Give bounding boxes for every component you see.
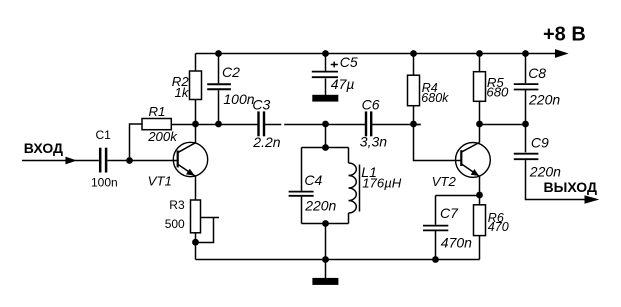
svg-text:100n: 100n	[91, 175, 118, 189]
svg-text:C4: C4	[304, 172, 322, 188]
wire: mid line right segment	[480, 124, 526, 126]
capacitor C9	[514, 154, 539, 160]
svg-text:C5: C5	[340, 54, 358, 70]
wire: R5 bottom lead	[479, 101, 481, 124]
wire: R4 bottom lead	[413, 106, 415, 124]
node: R4/base junction	[410, 121, 417, 128]
wire: emitter to C7	[436, 195, 480, 197]
capacitor C2	[207, 84, 231, 89]
svg-text:C7: C7	[440, 205, 459, 221]
wire: VT1 emitter lead	[195, 176, 197, 200]
resistor R2	[190, 71, 202, 100]
wire: tank to ground rail	[325, 224, 327, 260]
svg-text:2.2n: 2.2n	[252, 134, 280, 150]
wire: C9 bottom lead to output	[526, 160, 586, 199]
wire: C1 to VT1 base	[108, 160, 177, 162]
svg-text:C1: C1	[96, 128, 112, 142]
capacitor C4	[289, 192, 314, 196]
svg-text:680: 680	[486, 84, 509, 99]
ground bar (C5)	[312, 95, 338, 102]
svg-text:ВЫХОД: ВЫХОД	[544, 179, 597, 195]
wire: C4 bottom lead	[301, 197, 303, 224]
node: C8/C9 junction	[522, 121, 529, 128]
capacitor C7	[423, 226, 448, 231]
svg-text:R1: R1	[149, 104, 166, 119]
svg-text:470: 470	[488, 220, 509, 234]
wire: C9 top lead	[525, 124, 527, 152]
svg-text:176µH: 176µH	[362, 175, 402, 190]
inductor L1	[349, 163, 357, 213]
wire: R3 tap arm	[201, 217, 220, 219]
wire: R6 bottom lead	[479, 236, 481, 260]
wire: VT2 collector lead	[479, 124, 481, 142]
node: VT2 emitter junction	[476, 192, 483, 199]
node: mid line tank junction	[322, 121, 329, 128]
wire: C7 top lead	[435, 196, 437, 225]
svg-text:C3: C3	[252, 97, 270, 113]
wire: VT2 base drop	[414, 124, 461, 161]
resistor R5	[474, 72, 486, 102]
node: rail dot C8	[522, 50, 529, 57]
node: rail dot C2	[215, 50, 222, 57]
+8V arrowhead	[555, 49, 569, 58]
capacitor C3	[259, 111, 265, 136]
capacitor C1	[100, 148, 106, 173]
wire: L1 bottom lead	[348, 213, 350, 224]
wire: VT1 collector lead	[195, 124, 197, 143]
node: C2 bottom junction	[215, 121, 222, 128]
wire: C2 bottom lead	[218, 90, 220, 124]
svg-text:100n: 100n	[223, 91, 254, 107]
capacitor C8	[514, 84, 539, 89]
ground rail (bottom)	[196, 259, 480, 261]
svg-text:200k: 200k	[147, 129, 178, 144]
wire: C8 top lead	[525, 54, 527, 84]
svg-text:470n: 470n	[441, 234, 472, 250]
wire: R2 top lead	[195, 54, 197, 72]
wire: C7 bottom lead	[435, 231, 437, 260]
node: R3 bottom junction	[192, 239, 199, 246]
VT1 emitter diagonal	[178, 165, 195, 177]
svg-text:ВХОД: ВХОД	[24, 140, 63, 156]
node: ground rail junction	[322, 256, 329, 263]
node: rail dot C5	[322, 50, 329, 57]
node: C1/R1 junction	[126, 157, 133, 164]
svg-text:VT1: VT1	[148, 174, 172, 189]
input arrowhead	[66, 157, 77, 165]
svg-text:1k: 1k	[175, 85, 190, 100]
wire: VT2 emitter lead	[479, 176, 481, 205]
wire: R2 bottom lead	[195, 100, 197, 125]
wire: tank top lead	[325, 124, 327, 148]
resistor R4	[408, 75, 420, 106]
wire: R1 left lead	[130, 124, 143, 161]
svg-text:220n: 220n	[304, 197, 336, 213]
wire: R5 top lead	[479, 54, 481, 72]
VT2 emitter diagonal	[462, 164, 480, 176]
VT2 base bar	[460, 150, 462, 166]
wire: C2 top lead	[218, 54, 220, 84]
wire: input lead	[22, 160, 99, 162]
wire: mid line C6 to R4 stub	[372, 124, 421, 126]
svg-text:C9: C9	[531, 135, 549, 151]
ground bar (main)	[312, 278, 338, 285]
svg-text:47µ: 47µ	[331, 76, 355, 92]
transistor VT2	[456, 143, 491, 178]
resistor R1	[142, 119, 171, 130]
resistor R3	[191, 200, 201, 233]
wire: L1 top lead	[348, 148, 350, 164]
node: rail dot R5	[476, 50, 483, 57]
svg-text:C2: C2	[222, 64, 240, 80]
wire: C5 bottom lead	[325, 78, 327, 95]
svg-text:3,3n: 3,3n	[360, 133, 387, 149]
svg-text:680k: 680k	[421, 91, 449, 105]
VT1 emitter arrowhead	[186, 169, 195, 176]
wire: tank top bar	[302, 147, 349, 149]
wire: mid line R1 to C3	[171, 124, 258, 126]
L1 core line	[359, 165, 361, 212]
svg-text:220n: 220n	[529, 163, 561, 179]
node: rail dot R4	[410, 50, 417, 57]
svg-text:C6: C6	[362, 97, 380, 113]
VT2 collector diagonal	[462, 142, 480, 151]
capacitor C5	[312, 72, 338, 78]
capacitor C6	[366, 111, 371, 136]
wire: C5 top lead	[325, 54, 327, 72]
wire: R4 top lead	[413, 54, 415, 76]
transistor VT1	[173, 142, 207, 176]
svg-text:VT2: VT2	[432, 174, 457, 189]
node: VT2 collector junction	[476, 121, 483, 128]
wire: R3 tap down	[196, 218, 214, 243]
VT1 collector diagonal	[178, 143, 195, 153]
wire: mid line gap to C6	[284, 124, 365, 126]
VT2 emitter arrowhead	[471, 169, 480, 176]
wire: C8 bottom lead	[525, 90, 527, 124]
capacitor C5 plus sign	[331, 62, 338, 68]
wire: ground stub	[325, 260, 327, 279]
wire: mid line C3 to gap	[264, 124, 281, 126]
svg-text:220n: 220n	[528, 92, 560, 108]
svg-text:C8: C8	[528, 65, 546, 81]
svg-text:500: 500	[165, 217, 185, 231]
node: tank bottom junction	[322, 220, 329, 227]
VT1 base bar	[177, 151, 179, 168]
wire: tank bottom bar	[302, 223, 349, 225]
resistor R6	[474, 205, 486, 236]
svg-text:+8 В: +8 В	[543, 23, 586, 45]
wire: C4 top lead	[301, 148, 303, 191]
node: C7 ground junction	[432, 256, 439, 263]
node: tank top junction	[322, 144, 329, 151]
output arrowhead	[585, 195, 600, 204]
wire: R3 bottom lead	[195, 233, 197, 260]
svg-text:R3: R3	[169, 198, 185, 212]
wire: R4 junction right stub	[414, 124, 421, 126]
power rail +8V	[196, 53, 562, 55]
node: R2/VT1 collector junction	[192, 121, 199, 128]
